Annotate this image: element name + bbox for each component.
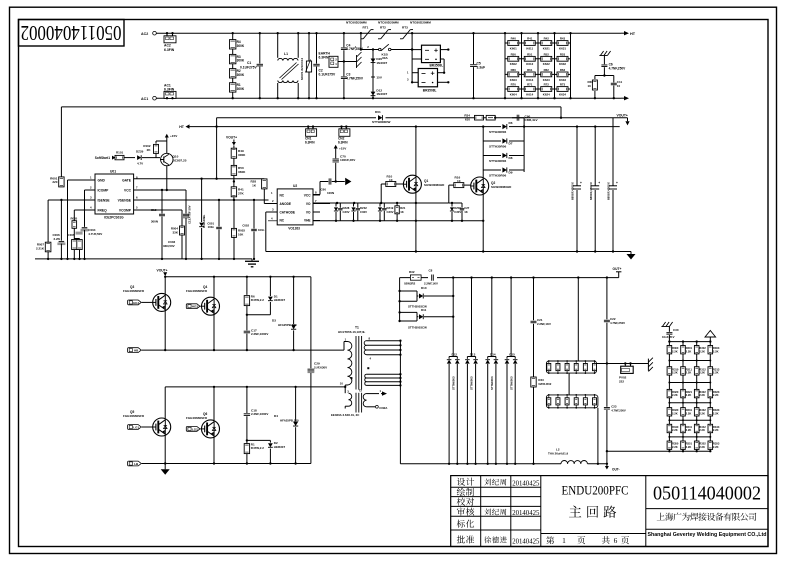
svg-text:EE360A 3.6X6.01, 2C: EE360A 3.6X6.01, 2C [331, 413, 360, 417]
svg-text:FGH40N60SFD: FGH40N60SFD [123, 414, 145, 418]
svg-text:D3: D3 [272, 318, 276, 322]
svg-text:R71: R71 [527, 83, 533, 87]
wire bridge left rail [411, 33, 413, 82]
wire pv02 row [607, 363, 648, 365]
svg-text:1N4007: 1N4007 [376, 92, 387, 96]
svg-text:NTC60D20MM: NTC60D20MM [346, 20, 367, 24]
wire grid vertical [554, 33, 556, 98]
capacitor C5 3.3uF [473, 33, 475, 64]
wire bottom AC line [156, 97, 621, 99]
svg-text:30A: 30A [382, 56, 388, 60]
zener DZ30 C30V [451, 203, 453, 207]
svg-text:D7: D7 [509, 141, 513, 145]
svg-text:U01: U01 [110, 169, 116, 173]
svg-text:10nF,2KV: 10nF,2KV [662, 335, 675, 339]
svg-text:15V: 15V [376, 76, 382, 80]
svg-text:100N: 100N [327, 191, 334, 195]
pill HG1 [128, 300, 142, 305]
wire control ground bus [35, 258, 252, 260]
resistor R53 6.8K [555, 58, 571, 60]
wire grid column [696, 342, 698, 452]
resistor R49 300K [233, 146, 235, 148]
diode D7 STTH30R06 [483, 140, 501, 142]
diode D1 HER307 [269, 277, 271, 296]
wire lower top rail [165, 386, 345, 388]
svg-text:BR3508L: BR3508L [423, 88, 437, 92]
HT output arrow [621, 32, 626, 34]
zener DZ32 C30V [353, 203, 355, 207]
svg-text:D10: D10 [421, 286, 427, 290]
title block verticals [480, 476, 482, 547]
transistor Q10 BC807 [161, 153, 173, 165]
capacitor C4 4.7nF/250V [343, 33, 345, 47]
transformer T1 secondary upper [364, 341, 366, 346]
svg-text:STTH6003: STTH6003 [451, 376, 455, 390]
title row label draw [457, 488, 474, 496]
svg-text:R43: R43 [560, 37, 566, 41]
svg-text:C13,47UF 50V: C13,47UF 50V [188, 205, 192, 224]
svg-text:C005: C005 [68, 233, 75, 237]
wire earth to chassis [338, 61, 357, 63]
svg-text:STTH806DW: STTH806DW [372, 120, 390, 124]
svg-text:D9: D9 [509, 170, 513, 174]
capacitor C10 680UF/450VX [612, 118, 614, 186]
capacitor C27 1K [461, 203, 463, 208]
svg-text:+15V: +15V [170, 134, 178, 138]
relay contact K1 30A [360, 33, 362, 49]
svg-text:C12: C12 [151, 208, 157, 212]
svg-text:OUT+: OUT+ [613, 267, 622, 271]
wire q4 emitter [213, 315, 215, 350]
wire rectifier column D14 [491, 278, 493, 357]
resistor R323 2.2K [708, 389, 713, 397]
wire grid row tie [669, 436, 710, 438]
capacitor C70 100UF/35V [335, 152, 337, 158]
svg-text:LG2: LG2 [192, 427, 198, 431]
svg-text:NTG80D20MM: NTG80D20MM [410, 20, 431, 24]
resistor R353 2.2K [708, 441, 713, 449]
resistor R21 1K [396, 203, 398, 206]
svg-text:2.2K: 2.2K [672, 371, 678, 375]
svg-text:02W2R2: 02W2R2 [404, 282, 416, 286]
svg-text:+: + [616, 181, 618, 185]
svg-text:VO1263: VO1263 [288, 227, 300, 231]
wire grid vertical [570, 33, 572, 98]
svg-text:02FR-R02: 02FR-R02 [538, 382, 551, 386]
svg-text:2.2K: 2.2K [672, 349, 678, 353]
capacitor C21 2.2NF/1KV [533, 278, 535, 321]
wire boost rail B [217, 126, 484, 128]
svg-text:360K: 360K [238, 170, 246, 174]
resistor R352 2.2K [694, 441, 699, 449]
svg-text:NTC60D20MM: NTC60D20MM [378, 20, 399, 24]
wire R-chain vertical [232, 33, 234, 98]
resistor R340 2.2K [667, 424, 672, 432]
svg-text:2.2K: 2.2K [713, 349, 719, 353]
svg-text:6: 6 [614, 536, 618, 545]
wire q3 emitter [164, 311, 166, 350]
svg-text:680UF,450VX: 680UF,450VX [589, 182, 593, 200]
resistor R330 2.2K [667, 408, 672, 416]
diode D8 STTH30R06 [483, 155, 501, 157]
wire main top rail y107 [61, 106, 561, 108]
svg-text:100n: 100n [208, 225, 215, 229]
svg-text:R53: R53 [560, 52, 566, 56]
wire out+ rail [400, 277, 619, 279]
svg-text:2.2K: 2.2K [699, 349, 705, 353]
U2 pin stubs [264, 203, 277, 205]
svg-text:VCC: VCC [304, 193, 311, 197]
svg-text:K623: K623 [543, 78, 550, 82]
resistor R60 6.8K [505, 73, 522, 75]
svg-text:NC: NC [280, 193, 285, 197]
resistor R42 6.8K [538, 42, 555, 44]
svg-text:STTH3003CW: STTH3003CW [408, 325, 427, 329]
svg-text:D6: D6 [509, 121, 513, 125]
svg-text:R50: R50 [511, 52, 517, 56]
IGBT Q4 FGH40N60SFD [213, 277, 215, 298]
svg-text:100n: 100n [258, 228, 265, 232]
svg-text:CATHODE: CATHODE [280, 210, 296, 214]
test point triangle [345, 178, 351, 185]
svg-text:300N: 300N [151, 219, 158, 223]
svg-text:2.2K: 2.2K [699, 393, 705, 397]
svg-text:K603: K603 [510, 78, 517, 82]
svg-text:R41: R41 [527, 37, 533, 41]
svg-text:300K: 300K [238, 153, 246, 157]
capacitor C17 2.2NF/1600V [246, 315, 248, 331]
resistor R312 2.2K [694, 367, 699, 375]
resistor R2 300K [230, 69, 236, 78]
svg-text:D13: D13 [470, 352, 476, 356]
capacitor C8 inline [428, 275, 437, 281]
svg-text:STTH30R06: STTH30R06 [489, 145, 506, 149]
antenna triangle symbol [709, 337, 711, 342]
AC1 input terminal [153, 96, 157, 100]
svg-text:NC: NC [280, 218, 285, 222]
title row label design [457, 478, 474, 486]
title main circuit [569, 506, 616, 518]
capacitor C1 0.1uF275V [259, 33, 261, 63]
ground triangle main bus [630, 252, 632, 255]
svg-text:R73: R73 [560, 83, 566, 87]
svg-text:GATE: GATE [122, 179, 132, 183]
diode D9 STTH30R06 [483, 169, 501, 171]
svg-text:MOV1 821KD14: MOV1 821KD14 [300, 58, 304, 80]
svg-text:AC2: AC2 [141, 32, 148, 36]
svg-text:+: + [580, 181, 582, 185]
wire grid vertical [537, 33, 539, 98]
svg-text:SoftStart1: SoftStart1 [95, 156, 110, 160]
wire emitter clamp bus [313, 220, 483, 222]
wire snubber feeds [577, 278, 579, 361]
svg-text:10: 10 [617, 84, 621, 88]
resistor R310 2.2K [667, 367, 672, 375]
svg-text:0.1UF275V: 0.1UF275V [240, 66, 257, 70]
svg-text:2.2K: 2.2K [713, 371, 719, 375]
wire inverter bottom rail [165, 463, 311, 465]
svg-text:D8: D8 [509, 156, 513, 160]
resistor R50 6.8K [505, 58, 522, 60]
svg-text:610: 610 [465, 117, 470, 121]
IGBT Q2 SGW30N60HD [471, 177, 489, 195]
svg-text:2.2K: 2.2K [686, 428, 692, 432]
label OUT- terminal [606, 464, 608, 466]
resistor R72 6.8K [538, 88, 555, 90]
U01 pin stubs [68, 179, 96, 181]
svg-text:D01: D01 [375, 110, 381, 114]
capacitor C18 2.2NF/1600V [246, 387, 248, 413]
svg-text:RT3: RT3 [402, 25, 408, 29]
svg-text:R101: R101 [116, 150, 124, 154]
resistor R28 1K opto feed [262, 179, 267, 189]
svg-text:D4: D4 [274, 414, 278, 418]
svg-text:27K: 27K [238, 191, 244, 195]
connector CN2 6.3FIN [339, 129, 350, 137]
svg-text:K611: K611 [526, 46, 533, 50]
capacitor C22 4.7NF/250V [606, 278, 608, 320]
svg-text:1K: 1K [400, 210, 404, 214]
connector EARTH 6.3FIN [329, 56, 338, 67]
resistor R71 6.8K [522, 88, 539, 90]
capacitor C3 4.7nF/250V [343, 62, 345, 77]
bottom rail output arrow [621, 97, 626, 99]
wire U01 vcc up [166, 166, 168, 190]
bridge rectifier BR1 BR3508L [422, 45, 441, 62]
svg-text:FGH40N60SFD: FGH40N60SFD [186, 289, 208, 293]
IGBT Q5 FGH40N60SFD [164, 387, 166, 419]
svg-text:1N4148EL: 1N4148EL [202, 214, 206, 228]
svg-text:C002: C002 [242, 223, 249, 227]
svg-text:K602: K602 [510, 62, 517, 66]
wire q6 emitter [213, 438, 215, 464]
title block outline [451, 476, 768, 547]
capacitor C30 10nF/2KV [661, 326, 669, 328]
resistor R331 2.2K [681, 408, 686, 416]
resistor R1 0.47W2.2 [246, 439, 248, 441]
svg-text:K633: K633 [559, 78, 566, 82]
svg-text:4.7NF,250V: 4.7NF,250V [610, 321, 625, 325]
svg-text:1N4007: 1N4007 [376, 61, 387, 65]
label +15V q10 [166, 138, 168, 142]
svg-text:0.1UF275V: 0.1UF275V [319, 73, 336, 77]
inductor L1 common-mode choke [277, 33, 279, 58]
svg-text:2.2K: 2.2K [699, 411, 705, 415]
RC cluster R005 R006 C005 [72, 221, 77, 229]
svg-text:10K: 10K [238, 232, 244, 236]
earth ground control bus [251, 259, 253, 261]
svg-text:R40: R40 [511, 37, 517, 41]
svg-text:HT: HT [630, 32, 636, 36]
svg-text:C30V: C30V [343, 210, 350, 214]
svg-text:C30: C30 [673, 328, 679, 332]
resistor R300 2.2K [667, 346, 672, 354]
resistor R301 2.2K [681, 346, 686, 354]
svg-text:+: + [598, 181, 600, 185]
wire rectifier column D12 [452, 278, 454, 357]
wire grid row tie [669, 419, 710, 421]
U01 left pin drops [67, 180, 69, 259]
diode D11 STTH3003CW [400, 311, 417, 313]
svg-text:2.2K: 2.2K [686, 371, 692, 375]
svg-text:R60: R60 [511, 68, 517, 72]
capacitor C11 [611, 82, 617, 84]
wire grid top rail [669, 341, 710, 343]
capacitor C13 47UF/50V [185, 190, 187, 214]
svg-text:2.2K: 2.2K [672, 411, 678, 415]
svg-text:ICE2PCS01G: ICE2PCS01G [104, 216, 124, 220]
capacitor C29 1UF/630V line [310, 277, 312, 369]
svg-text:R32: R32 [409, 270, 415, 274]
resistor R351 2.2K [681, 441, 686, 449]
resistor R52 6.8K [538, 58, 555, 60]
svg-text:2.2K: 2.2K [686, 445, 692, 449]
svg-text:220: 220 [52, 180, 57, 184]
wire diode ladder rails [482, 127, 484, 172]
wire rectifier column D15 [510, 278, 512, 357]
label +15V c70 [334, 145, 338, 149]
svg-text:LG1: LG1 [133, 426, 139, 430]
capacitor C002 100n [253, 200, 255, 229]
capacitor C001 100n [218, 200, 220, 227]
zener DZ28 C30V [335, 203, 337, 207]
svg-text:HFA25PB 120: HFA25PB 120 [278, 323, 297, 327]
svg-text:300K: 300K [237, 59, 245, 63]
svg-text:2.2K: 2.2K [699, 428, 705, 432]
connector CN1 6.3FIN [306, 129, 317, 137]
title mid divider [541, 533, 646, 535]
resistor R342 2.2K [694, 424, 699, 432]
wire grid row tie [669, 402, 710, 404]
resistor R40 6.8K [505, 42, 522, 44]
svg-text:K631: K631 [559, 46, 566, 50]
resistor R003 10K [233, 200, 235, 228]
svg-text:C30V: C30V [454, 210, 461, 214]
snubber network row2 [546, 395, 598, 408]
title block rows [451, 486, 541, 488]
svg-text:STTH30R06: STTH30R06 [489, 159, 506, 163]
svg-text:2.2K: 2.2K [686, 349, 692, 353]
resistor R70 6.8K [505, 88, 522, 90]
resistor R101 [114, 157, 115, 159]
svg-text:GND: GND [98, 179, 106, 183]
resistor R313 2.2K [708, 367, 713, 375]
svg-text:D14: D14 [490, 352, 496, 356]
svg-text:050114040002: 050114040002 [21, 21, 122, 45]
svg-text:680UF,450VX: 680UF,450VX [607, 182, 611, 200]
svg-text:2.2K: 2.2K [699, 445, 705, 449]
wire secondary common [399, 341, 401, 355]
wire rectifier column D13 [471, 278, 473, 357]
diode D3 HFA25PB120 [293, 277, 295, 325]
svg-text:10: 10 [588, 84, 592, 88]
resistor R43 6.8K [555, 42, 571, 44]
svg-text:2.2K: 2.2K [699, 371, 705, 375]
resistor R41 6.8K [522, 42, 539, 44]
svg-text:C30V: C30V [387, 210, 394, 214]
svg-text:H6 ETD56-16,19T,3L: H6 ETD56-16,19T,3L [338, 330, 366, 334]
IGBT Q3 FGH40N60SFD [164, 278, 166, 294]
svg-text:STTH6003: STTH6003 [490, 376, 494, 390]
svg-text:D11: D11 [421, 308, 427, 312]
resistor R61 6.8K [522, 73, 539, 75]
pill LB [128, 461, 142, 466]
resistor R6 0.47W2.2 [246, 277, 248, 295]
svg-text:FGH40N60SFD: FGH40N60SFD [186, 416, 208, 420]
svg-text:C1: C1 [247, 61, 251, 65]
diode D10 STTH3003CW [400, 290, 417, 292]
title name row1 [484, 479, 506, 486]
svg-text:HER307: HER307 [274, 298, 286, 302]
connector AC2 6.3FIN [164, 36, 176, 43]
capacitor C2 0.1uF/275V [316, 33, 318, 63]
svg-text:6.3FIN: 6.3FIN [338, 140, 348, 144]
zener DZ29 4.7V [137, 155, 141, 160]
svg-text:33N,50V: 33N,50V [163, 244, 175, 248]
svg-text:K621: K621 [543, 46, 550, 50]
resistor R333 2.2K [708, 408, 713, 416]
svg-text:SGW30N60HD: SGW30N60HD [424, 183, 445, 187]
svg-text:R63: R63 [560, 68, 566, 72]
thermistor RT3 [400, 38, 403, 40]
svg-text:4.7NF,250V: 4.7NF,250V [609, 67, 627, 71]
svg-text:ENDU200PFC: ENDU200PFC [562, 483, 629, 497]
diode D20 1N4007 [372, 50, 374, 75]
svg-text:10: 10 [340, 382, 344, 386]
svg-text:Shanghai Gevertey Welding Equi: Shanghai Gevertey Welding Equipment CO.,… [648, 532, 767, 538]
resistor R302 2.2K [694, 346, 699, 354]
resistor R63 6.8K [555, 73, 571, 75]
snubber network row1 [546, 361, 596, 373]
resistor R1 300K [230, 83, 236, 92]
svg-text:VOUT+: VOUT+ [157, 268, 168, 272]
capacitor C23 4.7NF/250V [606, 364, 608, 407]
wire boost rail A [217, 117, 628, 119]
thermistor RT2 [378, 38, 381, 40]
svg-text:20140425: 20140425 [512, 480, 540, 487]
svg-text:STTH6003: STTH6003 [470, 376, 474, 390]
resistor R321 2.2K [681, 389, 686, 397]
wire inverter top rail [165, 276, 311, 278]
svg-text:STTH30R06: STTH30R06 [489, 174, 506, 178]
svg-text:300K: 300K [237, 44, 245, 48]
svg-text:K634: K634 [559, 92, 566, 96]
svg-text:D15: D15 [509, 352, 515, 356]
wire Q1 emitter [415, 193, 417, 252]
svg-text:OUT-: OUT- [612, 468, 620, 472]
resistor R311 2.2K [681, 367, 686, 375]
svg-text:K612: K612 [526, 62, 533, 66]
wire grid vertical [504, 33, 506, 98]
svg-text:CN2A: CN2A [379, 406, 388, 410]
wire gate bus VO [313, 202, 449, 204]
svg-text:2.2NF,1KV: 2.2NF,1KV [537, 322, 551, 326]
diode D6 STTH30R06 [483, 126, 501, 128]
svg-text:2.2K: 2.2K [713, 411, 719, 415]
svg-text:D12: D12 [451, 352, 457, 356]
wire grid row tie [669, 382, 710, 384]
wire grid bottom out [607, 450, 670, 452]
svg-text:33K: 33K [172, 230, 178, 234]
wire top AC line [156, 32, 621, 34]
capacitor C90 CBB104LV [516, 115, 518, 121]
svg-text:300K: 300K [237, 73, 245, 77]
resistor R10 10 [380, 184, 382, 203]
svg-text:4.7NF,250V: 4.7NF,250V [346, 76, 364, 80]
wire grid column [668, 342, 670, 452]
svg-text:2.2K: 2.2K [713, 428, 719, 432]
diode D51 1N4148 [201, 179, 203, 222]
